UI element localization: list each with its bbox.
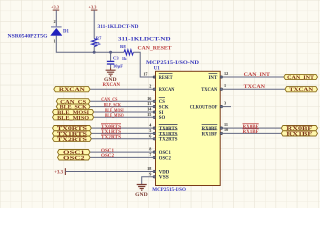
IC U1 MCP2515 body (156, 71, 221, 185)
port RX0BF (281, 126, 317, 133)
port TX2RTS (53, 136, 92, 143)
ground GND (VSS) (135, 185, 148, 199)
wire R7 to rail (93, 47, 95, 53)
U1 pin 13 SCK (147, 101, 169, 110)
svg-text:2: 2 (149, 84, 151, 89)
svg-text:BLE_SCK: BLE_SCK (104, 103, 121, 108)
net label TX0RTS (101, 123, 121, 129)
U1 pin 7 OSC2 (149, 152, 171, 161)
U1 pin 1 TXCAN (201, 83, 226, 93)
svg-text:TX2RTS: TX2RTS (159, 138, 178, 143)
net label RXCAN (103, 83, 121, 88)
port TXCAN (285, 87, 318, 94)
U1 pin 15 SO (147, 112, 165, 121)
svg-text:BLE_MISO: BLE_MISO (57, 116, 89, 121)
svg-text:12: 12 (224, 71, 228, 76)
U1 pin 2 RXCAN (149, 84, 175, 93)
wire OSC2 port to U1 pin 7 (90, 156, 156, 158)
svg-text:SI: SI (159, 111, 164, 116)
wire U1 RX1BF pin 10 to RX1BF port (220, 132, 281, 134)
net label CAN_CS (101, 98, 117, 103)
svg-text:6: 6 (149, 133, 151, 138)
svg-text:GND: GND (104, 78, 117, 83)
net label RX1BF (243, 129, 259, 135)
wire TX0RTS port to U1 pin 4 (91, 127, 155, 129)
wire BLE_MISO port to U1 pin 15 (94, 116, 156, 118)
svg-text:1: 1 (54, 39, 56, 43)
svg-text:1k: 1k (122, 56, 127, 61)
svg-text:TX1RTS: TX1RTS (159, 132, 178, 137)
svg-text:5: 5 (149, 128, 151, 133)
svg-text:MCP2515-I/SO-ND: MCP2515-I/SO-ND (146, 60, 199, 66)
net label TX2RTS (101, 134, 121, 140)
wire OSC1 port to U1 pin 8 (90, 151, 156, 153)
net label CAN_INT (244, 73, 271, 78)
svg-text:RX1BF: RX1BF (243, 130, 259, 135)
wire U1 TXCAN pin 1 to TXCAN port (220, 88, 285, 90)
svg-text:TX2RTS: TX2RTS (101, 136, 121, 141)
svg-text:8: 8 (149, 147, 151, 152)
U1 pin 14 SI (147, 107, 163, 116)
svg-text:2: 2 (54, 20, 56, 24)
svg-text:17: 17 (143, 72, 147, 77)
port CAN_CS (56, 99, 90, 106)
port BLE_SCK (56, 104, 90, 111)
svg-text:TX2RTS: TX2RTS (57, 138, 87, 143)
wire +3.3 to R7 (93, 10, 95, 38)
junction C3/rail (109, 51, 112, 54)
svg-text:13: 13 (147, 101, 151, 106)
svg-text:15: 15 (147, 112, 151, 117)
U1 pin 3 no-connect stub (220, 106, 231, 108)
svg-text:RX0BF: RX0BF (243, 125, 259, 130)
U1 pin 4 TX0RTS (149, 123, 178, 132)
svg-text:10µF: 10µF (113, 63, 123, 68)
svg-text:RESET: RESET (159, 76, 173, 81)
svg-text:R8: R8 (120, 44, 126, 49)
svg-text:311-1KLDCT-ND: 311-1KLDCT-ND (98, 25, 139, 30)
svg-text:16: 16 (147, 96, 151, 101)
svg-text:SO: SO (159, 116, 166, 121)
U1 pin 5 TX1RTS (149, 128, 178, 137)
U1 pin 16 CS (147, 96, 165, 105)
power +3.3 (R7 branch) (89, 5, 98, 11)
port CAN_INT (284, 74, 318, 81)
svg-text:OSC2: OSC2 (63, 156, 85, 161)
svg-text:TXCAN: TXCAN (244, 85, 266, 90)
svg-text:18: 18 (147, 166, 151, 171)
svg-text:11: 11 (224, 122, 228, 127)
svg-text:1k: 1k (96, 41, 101, 46)
U1 pin 9 VSS (149, 171, 169, 180)
U1 pin 10 RX1BF (202, 127, 229, 137)
U1 pin 18 VDD (147, 166, 170, 175)
port RXCAN (54, 87, 90, 94)
port BLE_MOSI (53, 109, 94, 116)
net label TXCAN (244, 85, 266, 90)
svg-text:OSC2: OSC2 (159, 156, 172, 161)
svg-text:MCP2515-I/SO: MCP2515-I/SO (152, 187, 186, 193)
svg-text:3: 3 (224, 100, 226, 105)
svg-text:+3.3: +3.3 (51, 5, 60, 10)
svg-text:OSC1: OSC1 (101, 149, 115, 154)
junction R7/rail (93, 51, 96, 54)
wire +3.3 to D1 cathode (55, 10, 57, 26)
power +3.3 (diode branch) (51, 5, 60, 11)
port OSC2 (58, 155, 91, 162)
svg-text:RXCAN: RXCAN (59, 88, 86, 93)
svg-text:OSC2: OSC2 (101, 154, 115, 159)
svg-text:RXCAN: RXCAN (103, 83, 121, 88)
svg-text:CAN_INT: CAN_INT (244, 73, 271, 78)
svg-text:SCK: SCK (159, 106, 169, 111)
svg-text:GND: GND (135, 193, 148, 198)
svg-text:D1: D1 (63, 30, 69, 35)
svg-text:C3: C3 (113, 56, 119, 61)
svg-text:CAN_INT: CAN_INT (287, 76, 315, 81)
svg-text:CS: CS (159, 100, 165, 105)
U1 pin 12 INT (209, 71, 229, 81)
svg-text:7: 7 (149, 152, 151, 157)
svg-text:BLE_MOSI: BLE_MOSI (105, 109, 124, 114)
net label OSC2 (101, 154, 115, 159)
wire TX2RTS port to U1 pin 6 (91, 138, 155, 140)
svg-text:9: 9 (149, 171, 151, 176)
svg-text:RX1BF: RX1BF (202, 132, 218, 137)
net label RX0BF (243, 123, 259, 129)
U1 pin 17 RESET (143, 72, 173, 81)
port RX1BF (281, 131, 317, 138)
svg-text:+3.3: +3.3 (89, 5, 98, 10)
svg-text:CAN_CS: CAN_CS (101, 98, 117, 103)
ground GND (C3) (104, 68, 117, 83)
svg-text:TX0RTS: TX0RTS (101, 125, 121, 130)
svg-text:1: 1 (224, 83, 226, 88)
port TX1RTS (53, 131, 92, 138)
wire R8 to U1 pin 17 (133, 52, 155, 77)
svg-text:CAN_RESET: CAN_RESET (138, 46, 172, 52)
svg-text:RXCAN: RXCAN (159, 88, 175, 93)
wire U1 INT pin 12 to CAN_INT port (220, 76, 284, 78)
svg-text:TXCAN: TXCAN (289, 88, 314, 93)
U1 pin 11 RX0BF (202, 122, 228, 132)
U1 pin 6 TX2RTS (149, 133, 178, 142)
wire TX1RTS port to U1 pin 5 (91, 132, 155, 134)
wire RXCAN port to U1 pin 2 (90, 88, 156, 90)
wire rail C3 junction to R8 (111, 51, 124, 53)
svg-text:RX1BF: RX1BF (286, 132, 312, 137)
port BLE_MISO (53, 115, 94, 122)
net label BLE_MISO (105, 114, 124, 119)
svg-text:BLE_MISO: BLE_MISO (105, 114, 124, 119)
net label TX1RTS (101, 129, 121, 135)
resistor R8 (124, 50, 133, 55)
wire U1 VSS pin 9 to ground (142, 177, 156, 185)
wire U1 RX0BF pin 11 to RX0BF port (220, 127, 281, 129)
wire CAN_CS port to U1 pin 16 (90, 100, 156, 102)
wire BLE_SCK port to U1 pin 13 (90, 106, 156, 108)
svg-text:CLKOUT/SOF: CLKOUT/SOF (190, 106, 218, 111)
svg-text:OSC1: OSC1 (159, 151, 172, 156)
capacitor C3 (107, 52, 114, 67)
port TX0RTS (53, 126, 92, 133)
net label BLE_SCK (104, 103, 121, 108)
svg-text:R7: R7 (96, 36, 102, 41)
svg-text:VSS: VSS (159, 176, 169, 181)
svg-text:NSR0540P2T5G: NSR0540P2T5G (8, 34, 48, 39)
svg-text:311-1KLDCT-ND: 311-1KLDCT-ND (118, 38, 171, 43)
svg-text:TXCAN: TXCAN (201, 88, 217, 93)
resistor R7 (92, 39, 97, 47)
power +3.3 (VDD) (54, 168, 65, 176)
net label OSC1 (101, 149, 115, 154)
diode D1 (51, 27, 62, 36)
svg-text:VDD: VDD (159, 170, 170, 175)
wire BLE_MOSI port to U1 pin 14 (94, 111, 156, 113)
svg-text:+3.3: +3.3 (54, 171, 63, 176)
wire D1 anode to rail (56, 36, 94, 53)
svg-text:INT: INT (209, 76, 219, 81)
U1 pin 8 OSC1 (149, 147, 171, 156)
wire +3.3 to U1 VDD pin 18 (65, 171, 155, 173)
port OSC1 (58, 150, 91, 157)
net label BLE_MOSI (105, 109, 124, 114)
wire rail R7 junction to C3 junction (94, 51, 110, 53)
U1 pin 3 CLKOUT/SOF (190, 100, 226, 110)
